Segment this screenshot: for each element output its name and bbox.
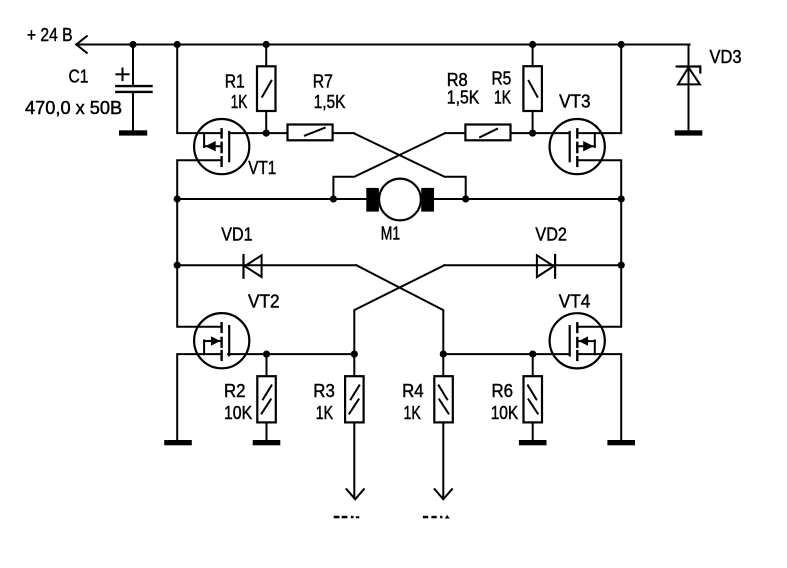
svg-text:10K: 10K (491, 403, 519, 423)
resistor R8 (465, 125, 510, 141)
label R1 designator (225, 71, 245, 91)
node input 2 arrow (435, 489, 452, 499)
node input 1 arrow (347, 489, 364, 499)
label C1 designator (69, 66, 89, 86)
label VD2 designator (535, 224, 567, 244)
wire +24V top rail (76, 44, 689, 46)
resistor R3 (345, 376, 364, 422)
svg-text:R3: R3 (313, 381, 335, 401)
wire VT3 source to +24V rail (578, 45, 621, 134)
label R8 value (447, 88, 480, 108)
svg-text:1K: 1K (494, 88, 511, 108)
svg-text:1K: 1K (404, 403, 421, 423)
wire C1 bottom lead (132, 93, 134, 130)
wire R4 top lead (442, 354, 444, 376)
resistor R6 (524, 376, 543, 422)
wire R6 top lead (532, 354, 534, 376)
wire VT3 gate lead (533, 132, 570, 134)
transistor VT3 (550, 119, 605, 174)
wire R5 bottom lead (532, 111, 534, 133)
transistor VT4 (550, 313, 605, 368)
label R4 designator (402, 381, 424, 401)
junction R1/R7/VT1 gate (263, 130, 270, 137)
wire VT4 gate row (443, 353, 569, 355)
svg-text:M1: M1 (381, 224, 400, 244)
wire R7 right lead (333, 132, 354, 134)
node input 1 clipped label (334, 516, 360, 519)
label R5 value (494, 88, 511, 108)
label VT2 designator (248, 291, 280, 311)
label R3 designator (313, 381, 335, 401)
ground under VD3 (675, 130, 703, 135)
svg-text:1K: 1K (231, 92, 248, 112)
svg-text:1K: 1K (316, 403, 333, 423)
wire cross-couple VD1 row to VT4 gate (356, 265, 443, 354)
wire VT2 source to ground (177, 354, 221, 440)
label R2 value (224, 403, 252, 423)
junction VD2 row right (618, 262, 625, 269)
ground under R6 (519, 440, 547, 445)
svg-text:R2: R2 (224, 381, 246, 401)
motor M1 (366, 179, 434, 221)
label R5 designator (492, 69, 512, 89)
resistor R4 (434, 376, 453, 422)
junction motor-A / cross stub (330, 195, 337, 202)
wire motor rail left (177, 198, 366, 200)
label VD1 designator (221, 224, 252, 244)
node input 2 clipped label (423, 515, 450, 519)
wire R5 top lead (532, 45, 534, 67)
label R4 value (404, 403, 421, 423)
wire C1 top lead (132, 45, 134, 86)
junction R6 / VT4 gate row (529, 351, 536, 358)
wire VT4 source to ground (578, 354, 621, 440)
label R8 designator (447, 70, 468, 90)
label R3 value (316, 403, 333, 423)
resistor R5 (523, 66, 542, 111)
label VT1 designator (248, 158, 276, 178)
junction motor rail left end (174, 195, 181, 202)
svg-text:VT2: VT2 (248, 291, 280, 311)
wire R8 left lead (445, 132, 465, 134)
label M1 designator (381, 224, 400, 244)
wire R3 top lead (353, 354, 355, 376)
wire VT1 drain to motor-A vertical (177, 160, 221, 326)
wire left vertical from +24V to VT1 source (177, 45, 221, 134)
node +24V supply arrow (76, 36, 87, 53)
label +24V net (27, 25, 73, 45)
svg-text:VD3: VD3 (710, 47, 742, 67)
junction motor-B / cross stub (462, 195, 469, 202)
label C1 value (25, 98, 122, 118)
wire cross-couple R7 to motor-B node (354, 133, 466, 199)
svg-text:+ 24 В: + 24 В (27, 25, 73, 45)
junction R5 / +24V rail (529, 41, 536, 48)
svg-text:R1: R1 (225, 71, 245, 91)
wire R1 top lead (265, 45, 267, 67)
svg-text:R7: R7 (313, 71, 333, 91)
junction VT1 branch / +24V rail (174, 41, 181, 48)
ground under VT2 (164, 440, 192, 445)
ground under C1 (119, 130, 147, 135)
svg-text:R6: R6 (492, 381, 514, 401)
junction VD1 row left (174, 262, 181, 269)
resistor R2 (257, 376, 276, 422)
wire VD2 row right (444, 264, 621, 266)
svg-text:VD1: VD1 (221, 224, 252, 244)
wire VT2 gate row (228, 353, 354, 355)
wire R2 bottom lead (266, 422, 268, 440)
capacitor C1 (116, 69, 151, 92)
transistor VT1 (194, 119, 249, 174)
label R1 value (231, 92, 248, 112)
label R2 designator (224, 381, 246, 401)
wire R6 bottom lead (532, 422, 534, 440)
junction R3 / VT2 gate row (351, 351, 358, 358)
wire R8 right lead to R5/VT3 gate node (511, 132, 533, 134)
wire motor rail right (434, 198, 621, 200)
svg-text:VT3: VT3 (559, 91, 590, 111)
svg-text:C1: C1 (69, 66, 89, 86)
svg-text:1,5K: 1,5K (314, 92, 346, 112)
diode VD2 (537, 255, 555, 278)
resistor R1 (257, 66, 276, 111)
ground under VT4 (607, 440, 635, 445)
svg-text:VT1: VT1 (248, 158, 276, 178)
svg-text:R5: R5 (492, 69, 512, 89)
junction R1 / +24V rail (263, 41, 270, 48)
wire R4 bottom lead to input 2 (442, 422, 444, 498)
svg-text:470,0 x 50В: 470,0 x 50В (25, 98, 122, 118)
label R6 designator (492, 381, 514, 401)
ground under R2 (253, 440, 281, 445)
transistor VT2 (194, 313, 249, 368)
label R7 value (314, 92, 346, 112)
svg-text:VT4: VT4 (559, 292, 591, 312)
label VT4 designator (559, 292, 591, 312)
wire VD3 vertical (688, 45, 690, 131)
wire VT1 gate to R1/R7 node (229, 132, 287, 134)
label VT3 designator (559, 91, 590, 111)
svg-text:R4: R4 (402, 381, 424, 401)
wire R3 bottom lead to input 1 (353, 422, 355, 498)
diode VD1 (244, 255, 262, 278)
wire VD1 row left (177, 264, 356, 266)
junction C1 / +24V rail (129, 41, 136, 48)
junction R2 / VT2 gate row (263, 351, 270, 358)
resistor R7 (288, 125, 333, 141)
wire cross-couple VD2 row to VT2 gate (354, 265, 444, 354)
junction R5/R8/VT3 gate (529, 130, 536, 137)
svg-text:VD2: VD2 (535, 224, 567, 244)
label VD3 designator (710, 47, 742, 67)
junction motor rail right end (618, 195, 625, 202)
wire cross-couple R8 to motor-A node (333, 133, 445, 199)
junction R4 / VT4 gate row (440, 351, 447, 358)
wire R1 bottom lead (265, 111, 267, 133)
junction VT3 branch / +24V rail (618, 41, 625, 48)
label R7 designator (313, 71, 333, 91)
svg-text:10K: 10K (224, 403, 252, 423)
wire VT3 drain to motor-B vertical (578, 160, 621, 326)
svg-text:1,5K: 1,5K (447, 88, 480, 108)
wire R2 top lead (266, 354, 268, 376)
zener diode VD3 (677, 67, 701, 85)
label R6 value (491, 403, 519, 423)
